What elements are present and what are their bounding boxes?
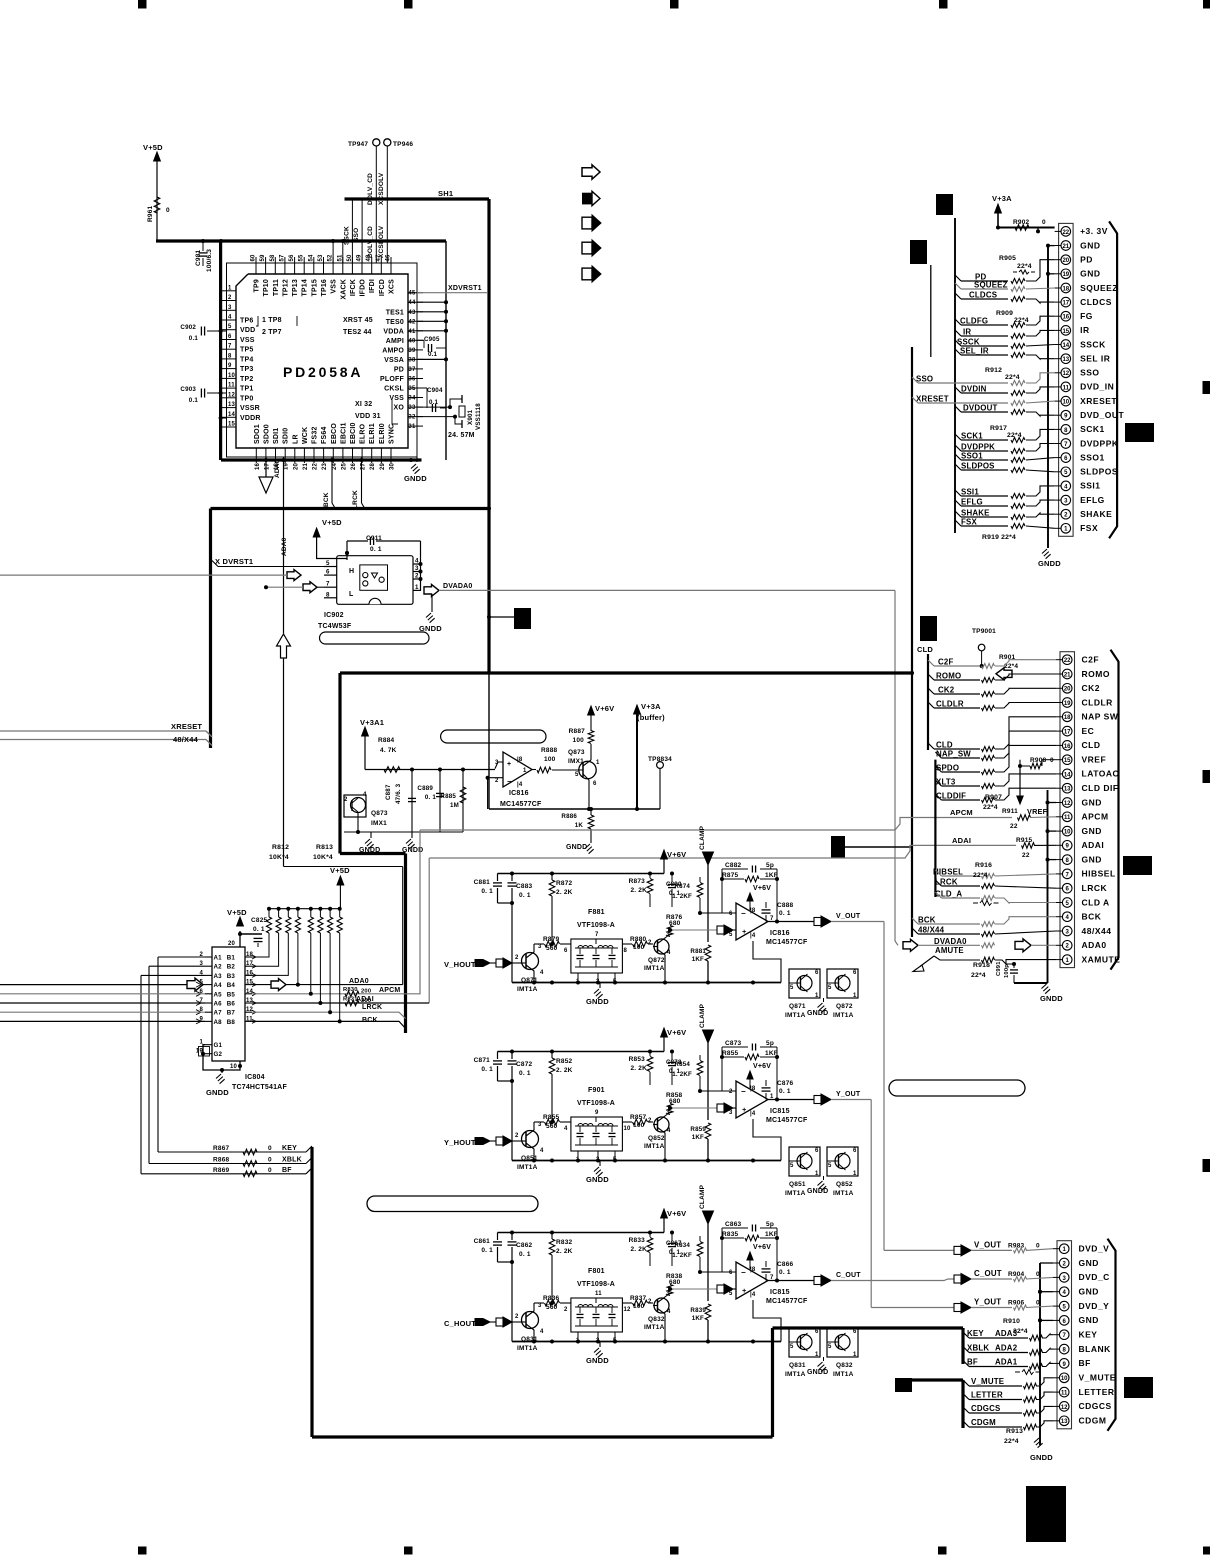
svg-text:48/X44: 48/X44	[1082, 926, 1112, 936]
svg-text:TES0: TES0	[386, 319, 404, 326]
svg-text:40: 40	[408, 338, 416, 344]
svg-text:28: 28	[370, 462, 376, 470]
svg-text:TP3: TP3	[240, 366, 253, 373]
svg-text:0: 0	[268, 1167, 272, 1174]
svg-text:VSS: VSS	[240, 337, 255, 344]
svg-text:FSX: FSX	[961, 518, 977, 527]
svg-text:C991: C991	[996, 961, 1002, 976]
svg-text:13: 13	[1061, 1419, 1068, 1425]
svg-text:R872: R872	[556, 880, 573, 887]
svg-text:IMT1A: IMT1A	[517, 986, 538, 993]
svg-text:ADA1: ADA1	[995, 1358, 1018, 1367]
svg-text:ADAI: ADAI	[1082, 840, 1105, 850]
svg-text:APCM: APCM	[379, 987, 400, 994]
svg-text:23: 23	[322, 462, 328, 470]
svg-text:1KF: 1KF	[692, 1134, 704, 1141]
svg-text:MC14577CF: MC14577CF	[766, 939, 808, 946]
svg-text:ADAI: ADAI	[952, 836, 971, 845]
svg-text:BCK: BCK	[362, 1017, 378, 1024]
svg-text:0. 1: 0. 1	[481, 888, 493, 895]
svg-text:+3. 3V: +3. 3V	[1080, 226, 1108, 236]
svg-text:R832: R832	[556, 1239, 573, 1246]
svg-text:SSO: SSO	[1080, 368, 1099, 378]
svg-text:0: 0	[268, 1145, 272, 1152]
svg-text:IMT1A: IMT1A	[644, 1143, 665, 1150]
svg-text:ADA0: ADA0	[274, 459, 281, 478]
svg-text:DVD_Y: DVD_Y	[1079, 1301, 1110, 1311]
svg-text:C888: C888	[777, 902, 794, 909]
svg-text:Y_OUT: Y_OUT	[974, 1298, 1001, 1307]
svg-text:R910: R910	[1003, 1318, 1020, 1325]
svg-text:R886: R886	[561, 813, 577, 820]
svg-text:V+5D: V+5D	[227, 908, 247, 917]
svg-text:0.1: 0.1	[189, 335, 199, 342]
svg-text:VSSA: VSSA	[384, 357, 404, 364]
svg-text:12: 12	[1061, 1405, 1068, 1411]
svg-text:1KF: 1KF	[692, 956, 704, 963]
svg-text:0. 1: 0. 1	[481, 1247, 493, 1254]
svg-text:22*4: 22*4	[971, 972, 986, 979]
svg-text:1: 1	[228, 285, 232, 291]
svg-text:CKSL: CKSL	[384, 386, 404, 393]
svg-text:V_MUTE: V_MUTE	[1079, 1373, 1116, 1383]
svg-text:ELRI1: ELRI1	[369, 423, 376, 444]
svg-text:IMT1A: IMT1A	[833, 1371, 854, 1378]
svg-text:XRESET: XRESET	[1080, 396, 1117, 406]
svg-text:R869: R869	[213, 1167, 230, 1174]
svg-text:R908: R908	[1030, 757, 1047, 764]
svg-text:GND: GND	[1082, 826, 1102, 836]
svg-text:12: 12	[624, 1307, 632, 1313]
svg-text:22*4: 22*4	[1014, 317, 1029, 324]
svg-text:TP0: TP0	[240, 395, 253, 402]
svg-text:2. 2K: 2. 2K	[556, 889, 573, 896]
svg-text:TP12: TP12	[282, 279, 289, 297]
svg-text:XACK: XACK	[340, 279, 347, 300]
svg-text:0. 1: 0. 1	[779, 910, 791, 917]
svg-text:IFDI: IFDI	[369, 279, 376, 293]
svg-text:TP16: TP16	[321, 279, 328, 297]
svg-text:C881: C881	[474, 879, 491, 886]
svg-text:18: 18	[1064, 715, 1071, 721]
svg-text:XI 32: XI 32	[355, 401, 372, 408]
svg-text:1K: 1K	[575, 822, 584, 829]
svg-text:KEY: KEY	[1079, 1330, 1098, 1340]
svg-text:1: 1	[853, 993, 857, 999]
svg-text:10: 10	[1061, 1376, 1068, 1382]
svg-text:GNDD: GNDD	[586, 1175, 609, 1184]
svg-text:2: 2	[729, 1089, 733, 1095]
svg-text:VSS1118: VSS1118	[475, 403, 482, 430]
svg-text:6: 6	[815, 1148, 819, 1154]
svg-text:22*4: 22*4	[983, 804, 998, 811]
svg-text:9: 9	[228, 363, 232, 369]
svg-text:1: 1	[853, 1352, 857, 1358]
svg-text:SSO: SSO	[916, 375, 933, 384]
svg-text:3: 3	[415, 565, 419, 572]
svg-text:GND: GND	[1082, 854, 1102, 864]
svg-text:15: 15	[1062, 329, 1069, 335]
svg-text:GND: GND	[1079, 1258, 1099, 1268]
svg-text:4: 4	[540, 1148, 544, 1154]
svg-text:Y_OUT: Y_OUT	[836, 1091, 861, 1098]
svg-text:B6: B6	[227, 1001, 236, 1008]
svg-text:XBLK: XBLK	[967, 1344, 989, 1353]
svg-text:22*4: 22*4	[973, 872, 988, 879]
svg-text:AMPI: AMPI	[386, 338, 404, 345]
svg-text:VDD 31: VDD 31	[355, 413, 381, 420]
svg-text:R813: R813	[316, 844, 333, 851]
svg-text:6: 6	[729, 911, 733, 917]
svg-text:30: 30	[390, 462, 396, 470]
svg-text:EBCI0: EBCI0	[350, 422, 357, 444]
svg-text:0: 0	[268, 1157, 272, 1164]
svg-text:|8: |8	[517, 757, 523, 763]
svg-text:IC815: IC815	[770, 1108, 790, 1115]
svg-text:TP947: TP947	[348, 141, 368, 148]
svg-text:IMT1A: IMT1A	[785, 1190, 806, 1197]
svg-text:SYNC: SYNC	[389, 424, 396, 444]
svg-text:19: 19	[1064, 701, 1071, 707]
svg-text:IMT1A: IMT1A	[833, 1190, 854, 1197]
svg-text:54: 54	[308, 254, 314, 262]
svg-text:R881: R881	[690, 948, 706, 955]
svg-text:1KF: 1KF	[692, 1315, 704, 1322]
svg-text:R915: R915	[1016, 837, 1033, 844]
svg-text:Q872: Q872	[648, 957, 665, 964]
svg-text:XRESET: XRESET	[171, 722, 202, 731]
svg-text:0.1: 0.1	[429, 399, 439, 406]
svg-text:SH1: SH1	[438, 189, 453, 198]
svg-text:GNDD: GNDD	[566, 844, 587, 851]
svg-text:XRESET: XRESET	[916, 395, 949, 404]
svg-text:R884: R884	[378, 737, 395, 744]
svg-text:0. 1: 0. 1	[370, 546, 382, 553]
svg-text:WCK: WCK	[302, 427, 309, 444]
svg-text:22*4: 22*4	[1007, 432, 1022, 439]
svg-text:V_HOUT: V_HOUT	[444, 960, 476, 969]
svg-text:CLAMP: CLAMP	[699, 825, 706, 850]
svg-text:GNDD: GNDD	[807, 1369, 828, 1376]
svg-text:SSI1: SSI1	[1080, 481, 1100, 491]
svg-text:C_OUT: C_OUT	[974, 1269, 1002, 1278]
svg-text:SDI1: SDI1	[273, 428, 280, 444]
svg-text:Q872: Q872	[836, 1003, 853, 1010]
svg-text:SEL_IR: SEL_IR	[960, 347, 989, 356]
svg-text:10: 10	[1064, 830, 1071, 836]
svg-text:|4: |4	[750, 1111, 756, 1117]
svg-text:C2F: C2F	[1082, 655, 1100, 665]
svg-text:SDI0: SDI0	[283, 428, 290, 444]
svg-text:V+6V: V+6V	[753, 1063, 771, 1070]
svg-text:C903: C903	[180, 386, 196, 393]
svg-text:200: 200	[361, 989, 371, 995]
svg-text:16: 16	[1064, 744, 1071, 750]
svg-text:48/X44: 48/X44	[918, 926, 945, 935]
svg-text:3: 3	[538, 1122, 542, 1128]
svg-text:SLDPOS: SLDPOS	[961, 462, 995, 471]
svg-text:SLDPOS: SLDPOS	[1080, 467, 1118, 477]
svg-text:VTF1098-A: VTF1098-A	[577, 922, 615, 929]
svg-text:10K*4: 10K*4	[269, 854, 289, 861]
svg-text:13: 13	[1062, 357, 1069, 363]
svg-text:11: 11	[1061, 1391, 1068, 1397]
svg-text:LRCK: LRCK	[362, 1004, 382, 1011]
svg-text:22: 22	[313, 462, 319, 470]
svg-text:VSSR: VSSR	[240, 405, 260, 412]
svg-text:ELRI0: ELRI0	[379, 423, 386, 444]
svg-text:5: 5	[790, 985, 794, 991]
svg-text:R907: R907	[985, 794, 1002, 801]
svg-text:R879: R879	[543, 936, 560, 943]
svg-text:+: +	[742, 1105, 747, 1114]
svg-text:V_OUT: V_OUT	[836, 913, 861, 920]
svg-text:R916: R916	[975, 862, 992, 869]
svg-text:V+6V: V+6V	[667, 1028, 686, 1037]
svg-text:IMT1A: IMT1A	[785, 1371, 806, 1378]
svg-text:IMT1A: IMT1A	[517, 1164, 538, 1171]
svg-text:ADA0: ADA0	[1082, 940, 1107, 950]
svg-text:FS32: FS32	[312, 426, 319, 444]
svg-text:100: 100	[544, 756, 556, 763]
svg-text:0. 1: 0. 1	[425, 794, 436, 801]
svg-text:IFDO: IFDO	[360, 279, 367, 297]
svg-text:SCK1: SCK1	[961, 432, 983, 441]
svg-text:TES1: TES1	[386, 309, 404, 316]
svg-text:R913: R913	[1006, 1428, 1023, 1435]
svg-text:EFLG: EFLG	[1080, 495, 1105, 505]
svg-text:8: 8	[228, 353, 232, 359]
svg-text:+: +	[742, 1286, 747, 1295]
svg-text:R853: R853	[629, 1056, 646, 1063]
svg-text:32: 32	[408, 415, 416, 421]
svg-text:TP1: TP1	[240, 386, 253, 393]
svg-text:6: 6	[853, 1329, 857, 1335]
svg-text:CLD A: CLD A	[1082, 897, 1110, 907]
svg-text:VREF: VREF	[1082, 755, 1107, 765]
svg-text:2: 2	[515, 955, 519, 961]
svg-text:56: 56	[289, 254, 295, 262]
svg-text:SDO1: SDO1	[254, 424, 261, 444]
svg-text:C861: C861	[474, 1238, 491, 1245]
svg-text:10: 10	[230, 1064, 238, 1070]
svg-text:17: 17	[264, 462, 270, 470]
svg-text:A8: A8	[214, 1019, 223, 1026]
svg-text:20: 20	[293, 462, 299, 470]
svg-text:29: 29	[380, 462, 386, 470]
svg-text:5p: 5p	[766, 1040, 774, 1047]
svg-text:560: 560	[546, 1304, 558, 1311]
svg-text:2. 2K: 2. 2K	[556, 1248, 573, 1255]
svg-text:TES2 44: TES2 44	[343, 329, 372, 336]
svg-text:BLANK: BLANK	[1079, 1344, 1112, 1354]
svg-text:VREF: VREF	[1027, 807, 1048, 816]
svg-text:Q852: Q852	[648, 1135, 665, 1142]
svg-text:0. 1: 0. 1	[779, 1269, 791, 1276]
svg-text:Y_HOUT: Y_HOUT	[444, 1138, 476, 1147]
svg-text:EC: EC	[1082, 726, 1095, 736]
svg-text:LATOAC: LATOAC	[1082, 769, 1120, 779]
svg-text:22: 22	[1064, 658, 1071, 664]
svg-text:5: 5	[729, 932, 733, 938]
svg-text:|8: |8	[750, 1267, 756, 1273]
svg-text:DVADA0: DVADA0	[934, 937, 967, 946]
svg-text:22: 22	[1022, 852, 1030, 859]
svg-text:C_OUT: C_OUT	[836, 1272, 861, 1279]
svg-text:L: L	[349, 591, 354, 598]
svg-text:24. 57M: 24. 57M	[448, 432, 475, 439]
svg-text:IMT1A: IMT1A	[644, 1324, 665, 1331]
svg-text:V+6V: V+6V	[595, 704, 614, 713]
svg-text:0. 1: 0. 1	[519, 892, 531, 899]
svg-text:R859: R859	[690, 1126, 706, 1133]
svg-text:CLD: CLD	[936, 741, 953, 750]
svg-text:10: 10	[228, 373, 236, 379]
svg-text:F901: F901	[588, 1087, 605, 1094]
svg-text:VDDR: VDDR	[240, 415, 261, 422]
svg-text:C904: C904	[427, 387, 443, 394]
svg-text:V+6V: V+6V	[667, 1209, 686, 1218]
svg-text:XLT3: XLT3	[936, 778, 956, 787]
svg-text:2. 2K: 2. 2K	[556, 1067, 573, 1074]
svg-text:DVDIN: DVDIN	[961, 385, 987, 394]
svg-text:(buffer): (buffer)	[637, 713, 665, 722]
svg-text:IC815: IC815	[770, 1289, 790, 1296]
svg-text:CK2: CK2	[938, 686, 955, 695]
svg-text:14: 14	[228, 412, 236, 418]
svg-text:ADAI: ADAI	[356, 996, 374, 1003]
svg-text:APCM: APCM	[950, 808, 973, 817]
svg-text:5: 5	[828, 1344, 832, 1350]
svg-text:C905: C905	[424, 336, 440, 343]
svg-text:|4: |4	[750, 1292, 756, 1298]
svg-text:0. 1: 0. 1	[481, 1066, 493, 1073]
svg-text:2: 2	[564, 1307, 568, 1313]
svg-text:XDVRST1: XDVRST1	[448, 285, 482, 292]
svg-text:Q873: Q873	[568, 749, 585, 756]
svg-text:A7: A7	[214, 1010, 223, 1017]
svg-text:XCSDOLV: XCSDOLV	[378, 172, 385, 205]
svg-text:DVD_V: DVD_V	[1079, 1244, 1110, 1254]
svg-text:35: 35	[408, 386, 416, 392]
svg-text:CLDFG: CLDFG	[960, 317, 988, 326]
svg-text:R854: R854	[674, 1061, 690, 1068]
svg-text:0: 0	[1050, 757, 1054, 764]
svg-text:AMUTE: AMUTE	[935, 946, 964, 955]
svg-text:IC804: IC804	[245, 1074, 265, 1081]
svg-text:BF: BF	[967, 1358, 978, 1367]
svg-text:Q873: Q873	[371, 810, 388, 817]
svg-text:BF: BF	[1079, 1358, 1091, 1368]
svg-text:4: 4	[667, 1128, 671, 1134]
svg-text:0. 1: 0. 1	[779, 1088, 791, 1095]
svg-text:SQUEEZ: SQUEEZ	[1080, 283, 1118, 293]
svg-text:33: 33	[408, 405, 416, 411]
svg-text:100: 100	[633, 944, 645, 951]
svg-text:TP4: TP4	[240, 356, 253, 363]
svg-text:IMT1A: IMT1A	[785, 1012, 806, 1019]
svg-text:B7: B7	[227, 1010, 236, 1017]
svg-text:IC902: IC902	[324, 612, 344, 619]
svg-text:FG: FG	[1080, 311, 1093, 321]
svg-text:TC4W53F: TC4W53F	[318, 623, 352, 630]
svg-text:IMT1A: IMT1A	[517, 1345, 538, 1352]
svg-text:GNDD: GNDD	[1030, 1453, 1053, 1462]
svg-text:12: 12	[1064, 801, 1071, 807]
svg-text:4: 4	[228, 315, 232, 321]
svg-text:R911: R911	[1002, 808, 1018, 815]
svg-text:ADA0: ADA0	[281, 537, 288, 556]
svg-text:APCM: APCM	[1082, 812, 1109, 822]
svg-text:V+6V: V+6V	[753, 885, 771, 892]
svg-text:C882: C882	[725, 862, 742, 869]
svg-text:ADA0: ADA0	[349, 978, 369, 985]
svg-text:R857: R857	[630, 1114, 647, 1121]
svg-text:F881: F881	[588, 909, 605, 916]
svg-text:34: 34	[408, 396, 416, 402]
svg-text:KEY: KEY	[967, 1329, 984, 1338]
svg-text:BF: BF	[282, 1167, 292, 1174]
svg-text:16: 16	[1062, 315, 1069, 321]
svg-text:21: 21	[1064, 672, 1071, 678]
svg-text:22*4: 22*4	[1004, 1438, 1019, 1445]
svg-text:20: 20	[228, 941, 236, 947]
svg-text:R902: R902	[1013, 219, 1030, 226]
svg-text:C883: C883	[516, 883, 533, 890]
svg-text:39: 39	[408, 348, 416, 354]
svg-text:14: 14	[1062, 343, 1069, 349]
svg-text:TP6: TP6	[240, 318, 253, 325]
svg-text:SCK1: SCK1	[1080, 424, 1105, 434]
svg-text:2. 2K: 2. 2K	[630, 887, 647, 894]
svg-text:0. 1: 0. 1	[253, 926, 265, 933]
svg-text:B8: B8	[227, 1019, 236, 1026]
svg-text:22*4: 22*4	[1005, 374, 1020, 381]
svg-text:H: H	[349, 568, 354, 575]
svg-text:17: 17	[1062, 301, 1069, 307]
svg-text:SPDO: SPDO	[936, 764, 959, 773]
svg-text:GNDD: GNDD	[1040, 994, 1063, 1003]
svg-text:6: 6	[564, 948, 568, 954]
svg-text:MC14577CF: MC14577CF	[500, 801, 542, 808]
svg-text:LRCK: LRCK	[1082, 883, 1108, 893]
svg-text:10K*4: 10K*4	[313, 854, 333, 861]
svg-text:6: 6	[853, 1148, 857, 1154]
svg-text:4. 7K: 4. 7K	[380, 747, 397, 754]
svg-text:CLAMP: CLAMP	[699, 1003, 706, 1028]
svg-text:C887: C887	[385, 784, 392, 800]
svg-text:V+3A1: V+3A1	[360, 718, 384, 727]
svg-text:R887: R887	[569, 728, 586, 735]
svg-text:1. 2KF: 1. 2KF	[672, 893, 692, 900]
svg-text:7: 7	[326, 581, 330, 588]
svg-text:TP5: TP5	[240, 347, 253, 354]
svg-text:GNDD: GNDD	[586, 997, 609, 1006]
svg-text:IFCD: IFCD	[379, 279, 386, 296]
svg-text:R855: R855	[722, 1050, 739, 1057]
svg-text:6: 6	[228, 334, 232, 340]
svg-text:GND: GND	[1082, 797, 1102, 807]
svg-text:26: 26	[351, 462, 357, 470]
svg-text:VSS: VSS	[331, 279, 338, 294]
svg-text:15: 15	[1064, 758, 1071, 764]
svg-text:|4: |4	[517, 782, 523, 788]
svg-text:DVADA0: DVADA0	[443, 583, 472, 590]
svg-text:100: 100	[573, 737, 585, 744]
svg-text:17: 17	[1064, 730, 1071, 736]
svg-text:VTF1098-A: VTF1098-A	[577, 1281, 615, 1288]
svg-text:45: 45	[408, 291, 416, 297]
